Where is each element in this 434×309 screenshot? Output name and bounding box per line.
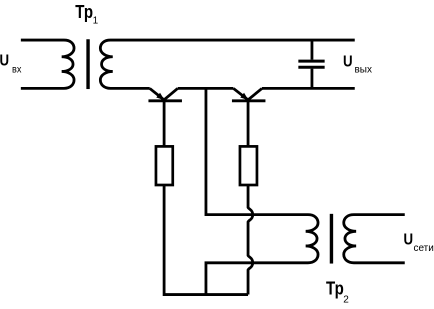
- wire rail between Q1 and Q2: [178, 87, 234, 90]
- svg-text:Тр: Тр: [75, 2, 93, 22]
- transformer Tp1 primary winding with input leads: [21, 40, 74, 88]
- svg-text:U: U: [0, 53, 9, 70]
- svg-text:U: U: [343, 53, 353, 70]
- transistor Q2 emitter diagonal: [233, 88, 248, 99]
- resistor R2: [240, 146, 257, 185]
- svg-text:2: 2: [343, 294, 349, 305]
- capacitor C1 top plate: [298, 60, 324, 63]
- svg-text:U: U: [403, 232, 413, 249]
- transistor Q1 emitter diagonal: [150, 88, 164, 99]
- wire R1 bottom lead and bottom rail: [164, 185, 248, 295]
- wire R2 bottom lead with crossover hops: [248, 185, 253, 295]
- svg-text:вых: вых: [354, 65, 372, 76]
- resistor R1: [156, 146, 173, 185]
- svg-text:сети: сети: [413, 243, 433, 254]
- transformer Tp1 core bar: [86, 39, 89, 89]
- wire rail from Q2 to right end: [262, 87, 355, 90]
- svg-text:Тр: Тр: [326, 279, 344, 299]
- transformer Tp2 secondary winding with mains leads: [344, 215, 405, 263]
- transistor Q2 base bar: [232, 99, 266, 102]
- svg-text:1: 1: [93, 16, 99, 27]
- transistor Q2 emitter arrow: [240, 93, 248, 100]
- svg-text:вх: вх: [12, 65, 21, 76]
- transformer Tp2 core bar: [330, 214, 333, 264]
- capacitor C1 bottom plate: [298, 66, 324, 69]
- transistor Q1 emitter arrow: [156, 93, 164, 100]
- transistor Q1 collector diagonal: [164, 88, 178, 99]
- capacitor C1 top lead: [311, 40, 314, 60]
- transformer Tp1 secondary winding with top rail and rail to Q1: [100, 40, 354, 88]
- transistor Q1 base lead: [163, 101, 166, 146]
- wire center line from rail to Tp2 and transformer Tp2 primary winding: [206, 88, 318, 294]
- transistor Q2 collector diagonal: [248, 88, 262, 99]
- transistor Q2 base lead: [247, 101, 250, 146]
- capacitor C1 bottom lead: [311, 69, 314, 89]
- transistor Q1 base bar: [148, 99, 182, 102]
